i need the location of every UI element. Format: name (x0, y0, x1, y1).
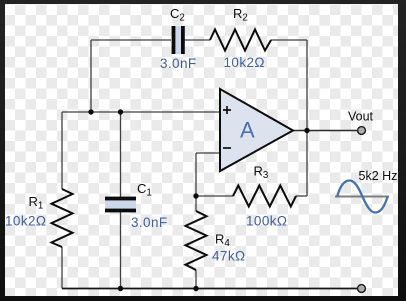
node junction feedback left (88, 109, 93, 114)
capacitor C1 (105, 197, 136, 213)
svg-text:3.0nF: 3.0nF (131, 215, 168, 230)
resistor R3 (233, 186, 296, 207)
wire R4 top lead (195, 196, 197, 211)
wire R3 right lead (296, 195, 307, 197)
node junction C1 top (118, 109, 123, 114)
wire inverting input vertical down (195, 153, 197, 196)
wire R1 bottom to rail (61, 247, 63, 289)
svg-text:Vout: Vout (348, 110, 374, 124)
source waveform axis (335, 196, 389, 198)
svg-text:3.0nF: 3.0nF (160, 56, 197, 71)
wire C1 branch vertical top (120, 112, 122, 197)
resistor R1 (52, 189, 73, 247)
svg-text:R3: R3 (254, 164, 269, 182)
wire top feedback horizontal (91, 39, 171, 41)
op-amp A body (220, 89, 293, 171)
svg-text:100kΩ: 100kΩ (246, 214, 287, 229)
source waveform sine (337, 181, 387, 213)
wire C2 to R2 (184, 39, 210, 41)
wire inverting input (196, 152, 220, 154)
wire node to R3 (196, 195, 233, 197)
svg-text:C2: C2 (170, 6, 185, 24)
node junction rail R4 (193, 286, 198, 291)
node junction output (304, 128, 309, 133)
wire R2 to right vertical (271, 39, 307, 41)
wire output (293, 130, 358, 132)
resistor R2 (210, 30, 271, 51)
svg-text:R2: R2 (233, 6, 248, 24)
capacitor C2 (172, 26, 185, 54)
wire non-inverting input (62, 111, 220, 113)
svg-text:R4: R4 (215, 232, 230, 250)
svg-text:A: A (240, 118, 255, 143)
wire right vertical feedback to output and R3 (306, 40, 308, 196)
svg-text:R1: R1 (29, 194, 44, 212)
svg-text:10k2Ω: 10k2Ω (5, 214, 46, 229)
op-amp A minus pin (223, 147, 231, 149)
resistor R4 (186, 211, 207, 270)
terminal rail right (358, 285, 366, 293)
node junction rail C1 (118, 286, 123, 291)
svg-text:C1: C1 (137, 181, 152, 199)
wire bottom rail (62, 288, 358, 290)
svg-text:10k2Ω: 10k2Ω (224, 55, 265, 70)
terminal Vout (358, 127, 366, 135)
wire R1 branch vertical (61, 112, 63, 189)
wire C1 bottom to rail (120, 212, 122, 289)
op-amp A plus pin (223, 106, 231, 114)
svg-text:5k2 Hz: 5k2 Hz (359, 169, 398, 183)
wire R4 bottom to rail (195, 270, 197, 289)
svg-text:47kΩ: 47kΩ (212, 249, 245, 264)
wire left feedback vertical (90, 40, 92, 112)
node junction inverting (193, 193, 198, 198)
